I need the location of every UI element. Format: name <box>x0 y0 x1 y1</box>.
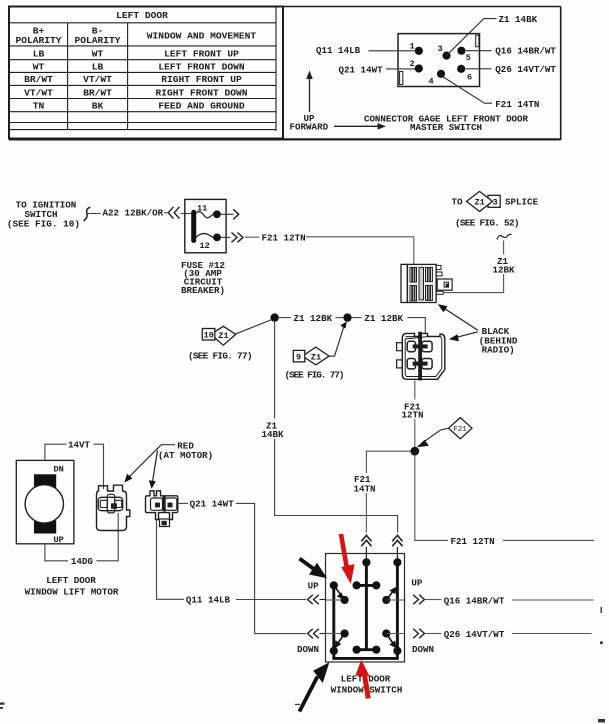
svg-text:LEFT FRONT DOWN: LEFT FRONT DOWN <box>158 61 245 72</box>
svg-text:(SEE FIG. 52): (SEE FIG. 52) <box>455 218 520 229</box>
arrow to upper radio connector <box>438 304 478 330</box>
wire Z1 12BK segment 2 <box>352 313 426 334</box>
svg-text:Q21 14WT: Q21 14WT <box>339 64 384 75</box>
radio connector lower centre bars <box>413 332 428 381</box>
reference tag 10 Z1 <box>188 320 272 362</box>
switch terminal dots <box>330 558 402 655</box>
svg-text:6: 6 <box>467 73 472 83</box>
wire 14DG <box>45 513 118 567</box>
svg-text:WT: WT <box>92 48 104 59</box>
pin 1 <box>410 41 423 55</box>
node F21 junction <box>410 447 419 456</box>
svg-text:BR/WT: BR/WT <box>24 74 53 85</box>
svg-text:UP: UP <box>54 535 64 545</box>
switch right chevrons row DOWN <box>413 629 424 638</box>
switch wiper down-left <box>335 634 345 649</box>
svg-text:4: 4 <box>429 77 434 87</box>
switch top connector chevrons Z1 <box>392 535 402 558</box>
breaker element thick bar <box>191 212 196 240</box>
svg-text:VT/WT: VT/WT <box>83 74 112 85</box>
svg-text:DOWN: DOWN <box>297 644 319 655</box>
motor connector 2 <box>146 491 178 527</box>
svg-text:RIGHT FRONT UP: RIGHT FRONT UP <box>161 74 242 85</box>
top right section frame <box>9 7 561 141</box>
breaker terminal 12 dot and squiggle <box>195 234 221 242</box>
svg-text:LB: LB <box>33 48 45 59</box>
svg-text:DN: DN <box>54 464 64 474</box>
svg-text:WINDOW AND MOVEMENT: WINDOW AND MOVEMENT <box>147 31 257 42</box>
svg-text:Z1 12BK: Z1 12BK <box>294 313 333 324</box>
window lift motor M1 <box>16 460 74 544</box>
wire color table LEFT DOOR frame <box>9 7 283 139</box>
break squiggle on Z1 drop <box>497 234 512 239</box>
breaker output 12 chevrons <box>221 233 243 243</box>
wire Q16 14BR/WT to pin 5 <box>466 45 557 56</box>
pin 3 <box>438 44 451 60</box>
svg-text:Q16 14BR/WT: Q16 14BR/WT <box>495 45 556 56</box>
svg-text:FEED AND GROUND: FEED AND GROUND <box>158 101 245 112</box>
arrow to motor connector 2 <box>149 451 158 489</box>
svg-text:Z1: Z1 <box>475 198 485 208</box>
svg-text:LEFT DOOR: LEFT DOOR <box>116 10 168 21</box>
svg-text:14DG: 14DG <box>71 556 94 567</box>
wire 14VT <box>45 440 104 489</box>
svg-text:FORWARD: FORWARD <box>290 122 329 133</box>
reference tag 9 Z1 <box>285 322 347 381</box>
radio connector upper terminals hatched <box>410 267 448 301</box>
table header text <box>15 10 256 46</box>
pin 4 <box>429 70 446 87</box>
svg-text:Z1 14BK: Z1 14BK <box>499 14 538 25</box>
connector gage body <box>398 34 480 87</box>
svg-text:TN: TN <box>33 101 45 112</box>
annotation red arrow top <box>341 534 355 584</box>
svg-text:F21: F21 <box>453 426 467 434</box>
svg-text:9: 9 <box>296 353 301 363</box>
label BLACK BEHIND RADIO <box>479 326 518 355</box>
svg-text:2: 2 <box>410 59 415 69</box>
svg-text:BR/WT: BR/WT <box>83 87 112 98</box>
annotation red arrow bottom <box>356 660 370 699</box>
pin 6 <box>457 65 472 83</box>
svg-text:14VT: 14VT <box>68 440 91 451</box>
svg-text:14TN: 14TN <box>354 483 376 494</box>
wire Q26 14VT/WT <box>426 629 592 640</box>
switch caption <box>331 674 403 696</box>
svg-text:Q11 14LB: Q11 14LB <box>316 45 361 56</box>
wire Q11 14LB <box>157 520 307 606</box>
svg-text:(SEE FIG. 10): (SEE FIG. 10) <box>7 219 80 230</box>
svg-text:14BK: 14BK <box>262 429 285 440</box>
switch wiper up-right <box>386 587 396 600</box>
switch wiper down-right <box>386 634 396 649</box>
annotation black arrow top <box>300 559 328 579</box>
svg-text:MASTER SWITCH: MASTER SWITCH <box>410 122 482 133</box>
svg-text:Q26 14VT/WT: Q26 14VT/WT <box>444 629 505 640</box>
svg-text:10: 10 <box>204 331 214 341</box>
UP arrow <box>304 71 316 125</box>
node Z1 junction 1 <box>270 313 278 321</box>
wire F21 14TN to pin 4 <box>443 77 540 110</box>
wire Q16 14BR/WT <box>426 596 594 607</box>
switch left chevrons row DOWN <box>308 629 326 638</box>
svg-text:BK: BK <box>92 101 104 112</box>
FORWARD arrow <box>290 122 387 133</box>
motor connector 1 <box>97 485 130 530</box>
svg-text:RIGHT FRONT DOWN: RIGHT FRONT DOWN <box>155 87 247 98</box>
switch wiper up-left <box>334 585 345 599</box>
arrow to lower radio connector <box>449 332 478 341</box>
svg-text:BREAKER): BREAKER) <box>181 285 225 296</box>
svg-text:Q21 14WT: Q21 14WT <box>190 499 235 510</box>
svg-text:TO: TO <box>452 197 464 208</box>
arrow to motor connector 1 <box>124 445 161 483</box>
pin 2 <box>410 59 423 72</box>
svg-text:(SEE FIG. 77): (SEE FIG. 77) <box>285 370 345 381</box>
wire F21 12TN lower right run <box>415 456 595 547</box>
svg-text:Z1: Z1 <box>218 331 228 341</box>
switch position labels <box>297 578 434 655</box>
svg-text:DOWN: DOWN <box>412 644 434 655</box>
svg-text:(SEE FIG. 77): (SEE FIG. 77) <box>188 350 253 361</box>
svg-text:5: 5 <box>466 53 471 63</box>
inline connector chevrons on A22 <box>168 207 179 219</box>
wire Z1 12BK segment 1 <box>279 313 344 324</box>
wire F21 14TN down to switch <box>354 451 411 532</box>
svg-text:LB: LB <box>92 61 104 72</box>
svg-text:12BK: 12BK <box>493 264 516 275</box>
svg-text:VT/WT: VT/WT <box>24 87 53 98</box>
svg-text:WT: WT <box>33 61 45 72</box>
wire Q26 14VT/WT to pin 6 <box>466 64 557 75</box>
breaker output 11 male terminal arrow <box>221 209 239 219</box>
svg-text:12: 12 <box>200 241 210 251</box>
switch internal wire stubs <box>326 600 405 634</box>
svg-text:A22 12BK/OR: A22 12BK/OR <box>103 208 164 219</box>
breaker terminal 11 dot and squiggle <box>196 210 221 218</box>
motor caption <box>25 575 119 597</box>
svg-text:UP: UP <box>411 578 423 589</box>
svg-text:UP: UP <box>308 580 320 591</box>
svg-text:3: 3 <box>493 198 498 208</box>
switch top connector chevrons F21 <box>361 535 371 558</box>
break squiggle at ignition lead <box>84 207 90 221</box>
svg-text:Q11 14LB: Q11 14LB <box>186 595 231 606</box>
wire A22 12BK/OR <box>88 208 168 219</box>
svg-text:Z1 12BK: Z1 12BK <box>364 313 403 324</box>
svg-text:F21 12TN: F21 12TN <box>262 232 306 243</box>
node Z1 junction 2 <box>343 313 351 321</box>
master switch box <box>326 554 405 663</box>
reference tag F21 diamond <box>417 418 472 448</box>
switch left chevrons row UP <box>308 595 326 604</box>
svg-text:Z1: Z1 <box>311 353 321 363</box>
radio connector lower (face view) <box>397 333 445 379</box>
svg-text:WINDOW LIFT MOTOR: WINDOW LIFT MOTOR <box>25 586 119 597</box>
svg-text:POLARITY: POLARITY <box>15 35 61 46</box>
svg-text:F21 12TN: F21 12TN <box>451 536 495 547</box>
switch middle bar <box>357 562 377 649</box>
circuit breaker box fuse 12 <box>185 199 226 252</box>
radio connector upper (side view) <box>401 264 452 302</box>
svg-text:LEFT FRONT UP: LEFT FRONT UP <box>164 48 239 59</box>
svg-text:1: 1 <box>410 41 415 51</box>
label RED AT MOTOR <box>158 440 213 461</box>
wire Z1 14BK vertical run <box>262 322 398 533</box>
wire F21 12TN from lower connector down <box>402 381 424 448</box>
switch right chevrons row UP <box>413 595 424 604</box>
svg-text:F21 14TN: F21 14TN <box>495 99 539 110</box>
svg-text:3: 3 <box>438 44 443 54</box>
annotation black arrow bottom <box>299 662 329 711</box>
table rows text <box>24 48 248 111</box>
svg-text:Q26 14VT/WT: Q26 14VT/WT <box>495 64 556 75</box>
svg-text:POLARITY: POLARITY <box>74 35 120 46</box>
svg-text:(AT MOTOR): (AT MOTOR) <box>158 450 213 461</box>
svg-text:LEFT DOOR: LEFT DOOR <box>46 575 96 586</box>
wire F21 12TN from breaker to radio connector <box>245 232 414 264</box>
scan artifacts <box>0 607 605 722</box>
wire Q21 14WT <box>178 499 306 634</box>
breaker caption <box>181 260 225 296</box>
wire Z1 12BK drop to radio connector <box>444 241 515 293</box>
svg-text:Q16 14BR/WT: Q16 14BR/WT <box>444 596 505 607</box>
svg-text:12TN: 12TN <box>402 410 424 421</box>
switch thick U bar <box>334 562 398 658</box>
svg-text:RADIO): RADIO) <box>482 344 515 355</box>
svg-text:SPLICE: SPLICE <box>505 197 539 208</box>
pin 5 <box>457 47 471 63</box>
wire into breaker <box>181 213 193 215</box>
ignition feed label <box>7 200 80 230</box>
wire Q21 14WT to pin 2 <box>339 64 416 75</box>
wire Q11 14LB to pin 1 <box>316 45 415 56</box>
splice symbol TO Z1 3 SPLICE <box>452 191 539 228</box>
wire Z1 14BK to pin 3 <box>447 14 538 55</box>
